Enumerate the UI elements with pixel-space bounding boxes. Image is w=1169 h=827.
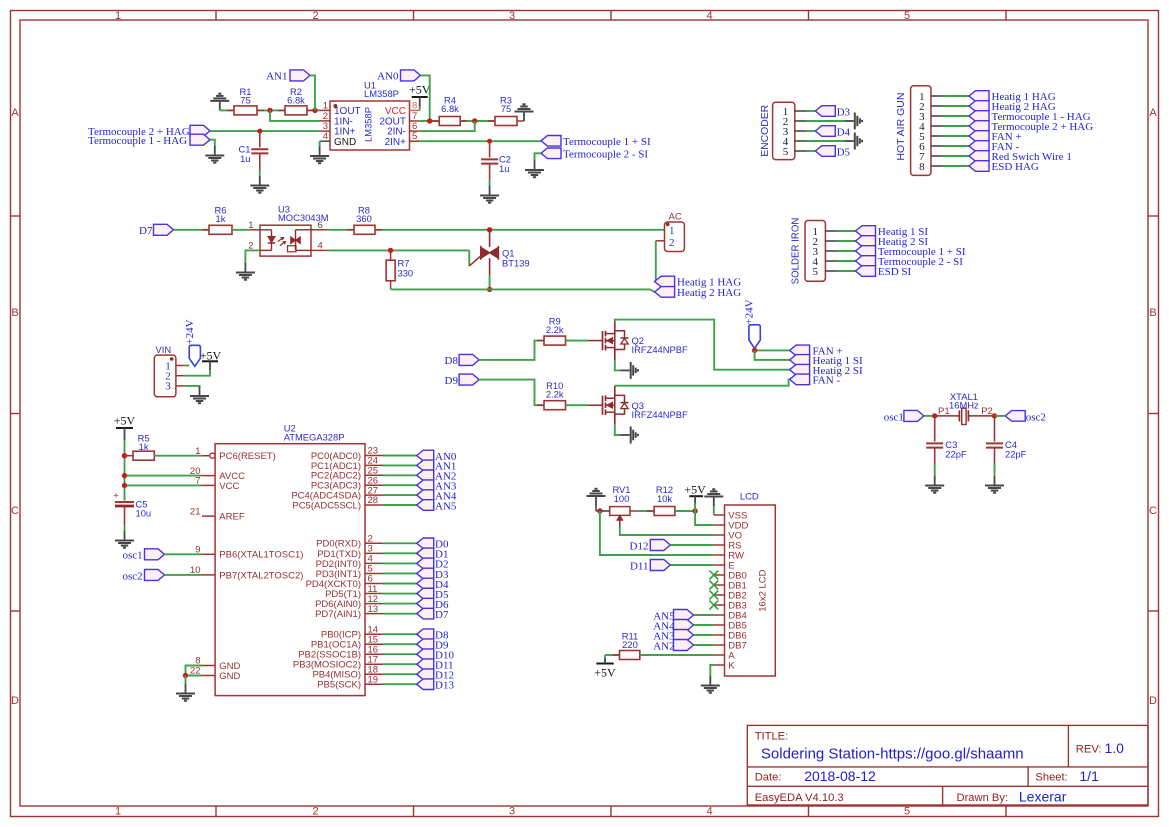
wire AN4 to LCD DB5 [694,624,714,626]
svg-text:5: 5 [783,146,789,158]
wire U3 pin2 to ground [245,250,260,263]
svg-text:3: 3 [509,10,515,22]
wire and net flag D13 [383,683,417,685]
wire and net flag D12 [383,673,417,675]
ground at Q2 source [620,369,630,371]
wire R6 to U3 pin1 [232,229,250,231]
svg-text:1u: 1u [240,153,250,164]
U2 pin 4 PD2(INT0) [365,562,383,564]
svg-text:22pF: 22pF [1005,448,1027,459]
wire +24V to FAN + flag [754,348,756,350]
ground below Termocouple 2 - SI flag [534,161,536,170]
svg-text:+5V: +5V [594,666,616,680]
wire AVCC to +5V rail [125,475,203,477]
svg-text:AREF: AREF [219,512,245,523]
svg-text:13: 13 [368,604,379,615]
wire Q3 source to ground [615,425,620,435]
svg-text:D7: D7 [435,609,449,621]
svg-text:75: 75 [501,103,511,114]
svg-text:D12: D12 [630,540,649,552]
svg-text:LM358P: LM358P [364,88,399,99]
wire pin7 to R4 [420,120,440,122]
svg-text:ATMEGA328P: ATMEGA328P [284,432,345,443]
net flag FAN + [790,345,810,356]
border row ticks left [11,215,21,217]
svg-text:4: 4 [323,131,328,142]
svg-text:10u: 10u [136,508,152,519]
net flag Termocouple 1 - HAG (hot air gun pin 3) [943,115,970,117]
svg-text:A: A [1149,107,1157,119]
resistor R3 [495,117,517,126]
border column ticks bottom [215,806,217,817]
no-connect X on DB0 [709,571,718,580]
svg-text:2: 2 [669,237,675,249]
wire and net flag D5 [383,593,417,595]
net flag Heatig 2 HAG [655,287,675,298]
wire U1 pin5 run [420,140,541,142]
junction C1 tap [257,129,262,134]
junction VCC [122,483,127,488]
wire pin6 tap [420,121,475,131]
capacitor C4 22pF [994,416,996,442]
resistor R8 [347,229,354,231]
ground below C2 [489,186,491,195]
net flag Heatig 1 SI (fan rail) [790,355,810,366]
svg-text:REV:: REV: [1076,744,1102,756]
svg-text:D8: D8 [445,355,459,367]
svg-text:D4: D4 [837,127,851,139]
wire C3 to ground [934,464,936,477]
svg-text:100: 100 [614,493,630,504]
svg-text:AN5: AN5 [435,500,457,512]
connector LCD 16x2 [725,505,776,676]
wire R4 to R3 [460,120,495,122]
svg-text:16MHz: 16MHz [949,400,979,411]
wire AN1 to pin1 junction [310,75,315,110]
wire Termocouple2 flag to U1 pin3 [210,130,320,132]
svg-text:+24V: +24V [184,319,196,344]
U2 pin 2 PD0(RXD) [365,542,383,544]
svg-text:4: 4 [706,806,712,818]
svg-text:75: 75 [240,95,250,106]
op-amp U1 LM358P [330,101,410,150]
wire U2 GND pins to ground [186,666,203,676]
svg-text:2.2k: 2.2k [546,324,564,335]
svg-text:5: 5 [412,131,417,142]
wire AN5 to LCD DB4 [694,614,714,616]
wire and net flag D1 [383,552,417,554]
no-connect X on DB2 [709,591,718,600]
wire R12 to +5V node [675,510,695,512]
net flag Termocouple 1 + SI (solder iron pin 3) [837,250,856,252]
net flag D5 [807,150,816,152]
wire R1 left to ground [220,109,234,111]
capacitor C1 [259,131,261,147]
wire and net flag D2 [383,562,417,564]
transistor Q2 IRFZ44NPBF [602,331,604,350]
border row ticks right [1148,215,1159,217]
wire and net flag AN5 [383,504,417,506]
svg-text:D3: D3 [837,107,851,119]
crystal XTAL1 16MHz [935,415,960,417]
title block frame [747,725,1148,805]
U2 pin 25 PC2(ADC2) [365,474,383,476]
svg-text:22pF: 22pF [945,448,967,459]
svg-text:1: 1 [115,10,121,22]
wire and net flag AN0 [383,455,417,457]
svg-text:Termocouple 1 - HAG: Termocouple 1 - HAG [88,135,187,147]
wire and net flag D3 [383,572,417,574]
wire C2 to ground [489,181,491,187]
connector SOLDER IRON [805,221,825,282]
svg-text:PB7(XTAL2TOSC2): PB7(XTAL2TOSC2) [219,570,303,581]
svg-text:VCC: VCC [219,481,239,492]
ground ENCODER pin2 [807,120,845,122]
svg-text:D: D [11,695,19,707]
net flag Red Swich Wire 1 (hot air gun pin 7) [943,155,970,157]
svg-text:VIN: VIN [156,344,172,355]
net flag Termocouple 2 + HAG (hot air gun pin 4) [943,125,970,127]
ground below C4 [994,476,996,485]
svg-text:TITLE:: TITLE: [755,731,789,743]
wire U3 pin6 to R8 [311,229,327,231]
ground below C3 [934,476,936,485]
resistor R2 [285,106,307,115]
svg-text:D11: D11 [630,560,649,572]
svg-text:1OUT: 1OUT [334,106,361,117]
svg-text:D7: D7 [139,225,153,237]
U2 pin 17 PB3(MOSIOC2) [365,663,383,665]
connector HOT AIR GUN [911,86,931,176]
ground above LCD VSS [713,506,715,516]
wire VIN pin2 to +5V [185,370,210,376]
svg-text:VCC: VCC [385,106,406,117]
connector VIN [154,355,176,397]
net flag Heatig 1 SI (solder iron pin 1) [837,230,856,232]
ground left of RV1 [595,497,597,506]
wire U3 pin4 to triac gate [311,249,327,251]
svg-text:1: 1 [248,220,253,231]
ground at Q3 source [620,434,630,436]
wire Q3 drain to FAN - flag [615,379,790,385]
RV1 wiper arrow [619,520,621,525]
wire Termocouple 2 - SI to ground [535,153,542,161]
svg-text:Lexerar: Lexerar [1019,789,1067,805]
wire and net flag D10 [383,653,417,655]
svg-text:2: 2 [312,806,318,818]
svg-text:AN1: AN1 [266,71,287,83]
wire to RV1 [600,510,610,512]
svg-text:AN0: AN0 [377,71,399,83]
net flag Heatig 2 SI (solder iron pin 2) [837,240,856,242]
svg-text:PB6(XTAL1TOSC1): PB6(XTAL1TOSC1) [219,550,303,561]
ground ENCODER pin4 [807,140,845,142]
svg-text:3: 3 [165,381,171,393]
wire AN2 to LCD DB7 [694,644,714,646]
svg-text:2: 2 [312,10,318,22]
svg-text:PB5(SCK): PB5(SCK) [317,680,361,691]
U2 pin 13 PD7(AIN1) [365,613,383,615]
net flag Heatig 1 HAG (hot air gun pin 1) [943,95,970,97]
capacitor C3 22pF [934,416,936,442]
U2 pin 12 PD6(AIN0) [365,603,383,605]
net flag FAN + (hot air gun pin 5) [943,135,970,137]
wire R3 to ground [517,120,524,122]
wire D11 to LCD E [670,564,714,566]
svg-text:ESD SI: ESD SI [878,266,912,278]
wire +5V to R11 [605,654,620,656]
ground top-left of R1 [219,102,221,111]
svg-text:28: 28 [368,495,379,506]
U2 pin 14 PB0(ICP) [365,633,383,635]
svg-text:osc1: osc1 [123,550,143,562]
svg-text:EasyEDA V4.10.3: EasyEDA V4.10.3 [755,792,844,804]
junction R4-R3 pin6 tap [472,118,477,123]
svg-text:LM358P: LM358P [363,107,374,142]
wire Termocouple1 flag to ground [210,140,215,147]
svg-text:P2: P2 [981,406,993,417]
svg-text:IRFZ44NPBF: IRFZ44NPBF [632,344,689,355]
net flag Termocouple 2 - SI [541,148,561,159]
svg-text:1: 1 [669,225,675,237]
wire and net flag AN3 [383,484,417,486]
U2 pin 9 PB6(XTAL1TOSC1) [202,553,215,555]
wire osc1 to U2 pin9 [165,553,203,555]
U2 pin 18 PB4(MISO) [365,673,383,675]
transistor Q3 IRFZ44NPBF [602,396,604,415]
resistor R4 [432,120,439,122]
net flag D3 [807,110,816,112]
svg-text:8: 8 [412,100,417,111]
wire C4 to ground [994,464,996,477]
U2 pin 21 AREF [202,515,215,517]
wire and net flag AN2 [383,474,417,476]
wire and net flag D4 [383,583,417,585]
svg-text:BT139: BT139 [502,258,530,269]
wire +5V rail down to C5 [124,440,126,501]
power +5V at LCD backlight [596,663,613,665]
svg-text:Heatig 2 HAG: Heatig 2 HAG [677,287,741,299]
ground below U3 pin2 [244,263,246,272]
svg-text:C: C [1149,505,1157,517]
resistor R6 [202,229,209,231]
optocoupler U3 MOC3043M [260,225,311,256]
junction P1 [932,413,937,418]
resistor R12 10k [647,510,654,512]
connector ENCODER [773,102,795,159]
net flag Termocouple 1 + SI [541,136,561,147]
wire VIN pin3 to ground [185,386,200,388]
svg-text:2018-08-12: 2018-08-12 [804,768,876,784]
triac Q1 BT139 [489,230,491,247]
junction R1-R2 node [267,108,272,113]
net flag ESD HAG (hot air gun pin 8) [943,165,970,167]
svg-text:1k: 1k [139,441,149,452]
svg-text:+5V: +5V [114,414,136,428]
wire D12 to LCD RS [670,544,714,546]
U2 pin 3 PD1(TXD) [365,552,383,554]
wire and net flag D8 [383,633,417,635]
svg-text:21: 21 [190,506,201,517]
net flag Heatig 1 HAG [655,276,675,287]
net flag FAN - (Q3 drain) [790,374,810,385]
svg-text:K: K [728,661,735,672]
no-connect X on DB3 [709,601,718,610]
wire osc2 to U2 pin10 [165,574,203,576]
junction pin7-AN0 [427,118,432,123]
svg-text:6.8k: 6.8k [287,95,305,106]
wire +5V node to LCD VDD [695,511,714,525]
microcontroller U2 ATMEGA328P [215,444,365,696]
svg-text:HOT AIR GUN: HOT AIR GUN [895,93,907,161]
svg-text:B: B [11,307,18,319]
resistor R10 [537,404,544,406]
wire R10 to Q3 gate [566,404,589,406]
svg-text:+: + [113,491,119,502]
U2 pin 16 PB2(SSOC1B) [365,653,383,655]
net flag Heatig 2 HAG (hot air gun pin 2) [943,105,970,107]
wire bottom rail to Heatig HAG flags [391,288,650,290]
U2 pin 5 PD3(INT1) [365,572,383,574]
svg-text:19: 19 [368,674,379,685]
wire AC pin2 to Heatig 1 HAG flag [656,240,665,242]
wire RV1 wiper to LCD VO [619,524,621,527]
ground below C5 [124,531,126,540]
svg-text:PC5(ADC5SCL): PC5(ADC5SCL) [292,500,361,511]
wire R8 to AC pin1 [375,229,665,231]
potentiometer RV1 100 [610,507,630,516]
svg-text:16x2 LCD: 16x2 LCD [758,569,769,611]
net flag D4 [807,130,816,132]
ground below LCD K [709,676,711,685]
svg-text:1: 1 [323,100,328,111]
junction AVCC [122,473,127,478]
U2 pin 19 PB5(SCK) [365,683,383,685]
wire pin2 tap [270,110,320,121]
svg-text:Termocouple 2 - SI: Termocouple 2 - SI [563,149,648,161]
svg-text:2.2k: 2.2k [546,389,564,400]
svg-text:Sheet:: Sheet: [1035,772,1067,784]
U2 pin 15 PB1(OC1A) [365,643,383,645]
svg-text:2IN+: 2IN+ [385,137,407,148]
connector AC [665,222,685,252]
svg-text:D: D [1149,695,1157,707]
svg-text:1u: 1u [499,163,509,174]
svg-text:IRFZ44NPBF: IRFZ44NPBF [632,409,689,420]
svg-text:1k: 1k [216,213,226,224]
wire U1 pin4 to ground [319,141,321,147]
wire R11 to LCD A [640,654,714,656]
wire D7 to R6 [174,229,210,231]
svg-text:D5: D5 [837,147,851,159]
U2 pin 22 GND [202,675,215,677]
wire and net flag D7 [383,613,417,615]
svg-text:B: B [1149,307,1156,319]
svg-text:LCD: LCD [740,491,759,502]
svg-text:A: A [11,107,19,119]
wire C5 to ground [124,526,126,532]
wire VCC to +5V rail [125,484,203,486]
svg-text:5: 5 [904,10,910,22]
junction Q1 bottom [487,287,492,292]
wire +24V to Heatig 1 SI flag [755,350,790,360]
svg-text:330: 330 [398,268,414,279]
svg-text:Drawn By:: Drawn By: [957,792,1009,804]
svg-text:4: 4 [706,10,712,22]
U2 pin 6 PD4(XCKT0) [365,583,383,585]
wire Q2 source to ground [615,360,620,370]
junction Q1 top [487,227,492,232]
svg-text:5: 5 [812,266,818,278]
svg-text:osc1: osc1 [884,411,904,423]
junction P2 [992,413,997,418]
svg-text:1/1: 1/1 [1079,768,1099,784]
net flag osc2 (crystal) [1005,411,1025,422]
svg-text:PC6(RESET): PC6(RESET) [219,451,275,462]
wire and net flag D11 [383,663,417,665]
svg-text:+5V: +5V [409,83,431,97]
svg-text:D9: D9 [445,375,459,387]
U2 pin 1 PC6(RESET) [210,453,215,458]
ground right of R3 [523,113,525,122]
ground at VIN pin3 [199,387,201,396]
svg-text:1.0: 1.0 [1105,740,1125,756]
ground below U1 pin4 [319,147,321,156]
svg-text:220: 220 [622,639,638,650]
net flag Heatig 2 SI (Q2 drain) [790,364,810,375]
svg-text:3: 3 [509,806,515,818]
svg-text:osc2: osc2 [1026,411,1046,423]
svg-text:+5V: +5V [200,348,222,362]
wire osc1 to crystal P1 [924,415,935,417]
svg-text:ESD HAG: ESD HAG [992,161,1039,173]
U2 pin 8 GND [202,665,215,667]
wire D9 to R10 [479,380,544,406]
junction +5V LCD node [692,508,697,513]
svg-text:+24V: +24V [743,299,755,324]
svg-text:SOLDER IRON: SOLDER IRON [791,218,802,285]
net flag FAN - (hot air gun pin 6) [943,145,970,147]
wire R1 to R2 [257,109,285,111]
capacitor C2 [489,141,491,157]
svg-text:+5V: +5V [684,483,706,497]
svg-text:GND: GND [334,137,356,148]
U2 pin 24 PC1(ADC1) [365,464,383,466]
wire and net flag D6 [383,603,417,605]
wire and net flag AN1 [383,464,417,466]
net flag Termocouple 2 - SI (solder iron pin 4) [837,260,856,262]
wire Q2 drain to Heatig 2 SI flag [615,320,790,370]
svg-text:10k: 10k [657,493,672,504]
resistor R9 [537,340,544,342]
wire LCD K to ground [710,665,714,677]
ground below Termocouple1 flag [214,146,216,155]
wire R5 to U2 pin1 [154,455,202,457]
wire AN0 to U1 pin7 [421,75,430,121]
wire RV1 left node to LCD RW [600,511,714,555]
svg-text:GND: GND [219,671,240,682]
svg-text:PD7(AIN1): PD7(AIN1) [315,609,361,620]
resistor R7 [390,250,392,260]
border column ticks top [215,11,217,21]
svg-text:8: 8 [919,161,925,173]
U2 pin 27 PC4(ADC4SDA) [365,494,383,496]
U2 pin 7 VCC [202,484,215,486]
svg-text:AN2: AN2 [653,640,674,652]
wire and net flag AN4 [383,494,417,496]
U2 pin 10 PB7(XTAL2TOSC2) [202,574,215,576]
svg-text:D13: D13 [435,680,454,692]
